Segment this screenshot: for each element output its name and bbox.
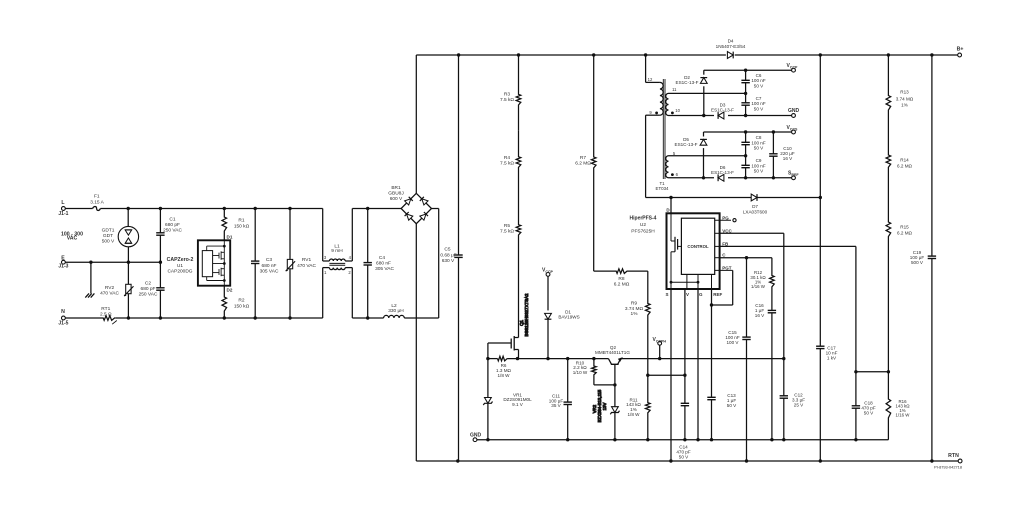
- svg-text:3.74 MΩ: 3.74 MΩ: [896, 96, 914, 101]
- svg-text:L2: L2: [391, 303, 397, 309]
- svg-text:50 V: 50 V: [864, 411, 874, 416]
- svg-text:ET034: ET034: [656, 186, 669, 191]
- terminal J1-3 (E input): [58, 255, 68, 269]
- svg-text:R9: R9: [631, 301, 637, 307]
- svg-text:N: N: [61, 309, 65, 315]
- wire N line: [65, 316, 322, 319]
- wire S down: [670, 289, 672, 461]
- diode D1: [542, 267, 580, 358]
- svg-text:C4: C4: [379, 255, 385, 261]
- svg-text:R15: R15: [900, 224, 909, 229]
- resistor R3: [500, 55, 521, 131]
- earth ground: [85, 262, 94, 297]
- capacitor C19: [910, 55, 936, 461]
- svg-text:10: 10: [675, 108, 680, 113]
- wire pin 5 rail: [669, 154, 748, 157]
- svg-text:1/8 W: 1/8 W: [628, 412, 641, 417]
- label Q1: [519, 293, 529, 337]
- svg-text:50 V: 50 V: [754, 106, 764, 111]
- resistor R14: [886, 130, 912, 195]
- terminal GND (bias): [788, 108, 800, 117]
- capacitor C5: [440, 55, 462, 461]
- zener VR2: [610, 385, 619, 442]
- wire FB: [720, 246, 891, 373]
- svg-text:S: S: [665, 292, 668, 297]
- svg-text:1/16 W: 1/16 W: [896, 413, 911, 418]
- wire VCC: [720, 233, 784, 358]
- svg-text:G: G: [699, 292, 703, 297]
- wire choke to L2 line: [352, 317, 383, 319]
- svg-text:9 mH: 9 mH: [331, 248, 343, 254]
- svg-text:470 VAC: 470 VAC: [100, 290, 119, 296]
- svg-text:F1: F1: [94, 194, 100, 200]
- svg-text:R14: R14: [900, 158, 909, 163]
- capacitor C17: [816, 198, 837, 462]
- svg-text:R3: R3: [504, 91, 510, 97]
- terminal GND (control ground): [470, 433, 482, 442]
- diode D6: [711, 165, 734, 181]
- svg-text:GBU8J: GBU8J: [388, 191, 404, 197]
- svg-text:R7: R7: [580, 155, 586, 161]
- svg-text:470 VAC: 470 VAC: [297, 263, 316, 269]
- svg-text:13V: 13V: [602, 403, 607, 411]
- svg-text:BAV19WS: BAV19WS: [558, 314, 579, 319]
- svg-text:CONTROL: CONTROL: [687, 244, 709, 249]
- svg-text:6.2 MΩ: 6.2 MΩ: [614, 282, 630, 288]
- wire C pin: [720, 256, 772, 259]
- svg-text:CAP200DG: CAP200DG: [167, 268, 192, 274]
- svg-text:E: E: [61, 255, 65, 261]
- svg-text:VAC: VAC: [67, 236, 78, 242]
- svg-text:MMBT4401LT1G: MMBT4401LT1G: [595, 350, 630, 355]
- zener VR1: [483, 359, 532, 442]
- svg-text:6.2 MΩ: 6.2 MΩ: [897, 164, 912, 169]
- svg-text:1/16 W: 1/16 W: [751, 284, 766, 289]
- svg-text:D4: D4: [728, 39, 734, 44]
- svg-text:PG: PG: [722, 215, 729, 220]
- svg-text:D7: D7: [752, 204, 758, 209]
- svg-text:7.5 kΩ: 7.5 kΩ: [500, 161, 514, 167]
- IC U1 CAPZero-2: [198, 235, 233, 293]
- V_CCPH rail (right part): [621, 357, 786, 360]
- terminal V_CCS: [787, 125, 799, 134]
- svg-text:C2: C2: [145, 280, 151, 286]
- label U1 CAPZero-2: [167, 257, 194, 274]
- capacitor C15: [725, 258, 750, 461]
- svg-text:ES1C-13-F: ES1C-13-F: [675, 142, 698, 147]
- svg-text:RV2: RV2: [105, 285, 115, 291]
- svg-text:PFS7625H: PFS7625H: [631, 228, 655, 234]
- resistor R4: [500, 131, 521, 196]
- capacitor C10: [769, 132, 795, 178]
- svg-text:ES1C-13-F: ES1C-13-F: [711, 108, 734, 113]
- svg-text:GND: GND: [470, 433, 482, 439]
- svg-text:0.68 μF: 0.68 μF: [440, 252, 456, 258]
- svg-text:2.5 Ω: 2.5 Ω: [100, 311, 112, 317]
- wire top bus to T1 pin 12: [646, 55, 660, 82]
- resistor R10: [573, 359, 617, 387]
- resistor R9: [625, 271, 650, 375]
- varistor RV1: [286, 207, 317, 320]
- terminal J1-1 (L input): [58, 200, 68, 217]
- resistor R12: [750, 258, 774, 300]
- capacitor C4: [364, 207, 395, 320]
- svg-text:FB: FB: [722, 241, 729, 246]
- terminal J1-5 (N input): [58, 309, 68, 326]
- svg-text:16 V: 16 V: [755, 313, 765, 318]
- resistor R16: [886, 372, 910, 440]
- svg-text:680 pF: 680 pF: [141, 286, 156, 292]
- terminal RTN: [948, 453, 962, 463]
- svg-text:50 V: 50 V: [754, 83, 764, 88]
- svg-text:150 kΩ: 150 kΩ: [234, 223, 250, 229]
- wire pin 11 rail: [669, 92, 748, 95]
- svg-text:35 V: 35 V: [551, 403, 561, 408]
- svg-text:7.5 kΩ: 7.5 kΩ: [500, 97, 514, 103]
- svg-text:BSS126H6327XTSA2: BSS126H6327XTSA2: [524, 293, 529, 337]
- wire V down / capacitor C14: [646, 289, 691, 459]
- wire G down: [697, 289, 699, 440]
- svg-text:BR1: BR1: [391, 185, 401, 191]
- svg-text:C3: C3: [266, 257, 272, 263]
- resistor R6: [496, 356, 511, 378]
- resistor R7: [575, 55, 596, 271]
- svg-text:250 VAC: 250 VAC: [139, 292, 158, 298]
- capacitor C11: [549, 359, 572, 442]
- svg-text:500 V: 500 V: [102, 239, 115, 245]
- capacitor C6: [741, 70, 765, 93]
- svg-text:GDT1: GDT1: [102, 227, 115, 233]
- resistor R2: [222, 286, 250, 318]
- svg-text:680 pF: 680 pF: [165, 222, 180, 228]
- svg-text:ES1C-13-F: ES1C-13-F: [676, 80, 699, 85]
- capacitor C12: [780, 359, 806, 440]
- svg-text:D1: D1: [227, 235, 233, 240]
- thermistor RT1: [100, 306, 117, 324]
- pin 10 / GND rail of bias: [669, 114, 792, 117]
- svg-text:305 VAC: 305 VAC: [260, 268, 279, 274]
- resistor R13: [886, 55, 914, 130]
- wire L line: [65, 208, 322, 210]
- svg-text:V: V: [686, 292, 689, 297]
- resistor R1: [222, 207, 250, 241]
- svg-text:150 kΩ: 150 kΩ: [234, 303, 250, 309]
- wire choke to bridge top: [352, 208, 401, 210]
- terminal S_REF: [788, 171, 799, 180]
- svg-text:6.2 MΩ: 6.2 MΩ: [575, 161, 591, 167]
- svg-text:D2: D2: [227, 288, 233, 293]
- transistor Q1 (depletion MOSFET): [488, 336, 519, 359]
- IC U2 HiperPFS-4: [667, 213, 733, 289]
- wire T1 pin 9 to drain node: [646, 115, 671, 197]
- wire bottom bus RTN: [416, 459, 958, 462]
- diode D4: [716, 39, 746, 59]
- svg-text:1N5407-E3/54: 1N5407-E3/54: [716, 44, 746, 49]
- svg-text:16 V: 16 V: [783, 156, 793, 161]
- svg-text:6.2 MΩ: 6.2 MΩ: [897, 230, 912, 235]
- svg-text:PGT: PGT: [722, 265, 732, 270]
- label VR2: [592, 389, 607, 422]
- svg-text:PI-8793-042718: PI-8793-042718: [934, 464, 962, 469]
- svg-text:J1-5: J1-5: [58, 321, 68, 327]
- svg-text:RT1: RT1: [101, 306, 110, 312]
- label 100-300 VAC: [61, 231, 83, 241]
- svg-text:50 V: 50 V: [754, 146, 764, 151]
- capacitor C16: [755, 300, 776, 440]
- V_CCP rail: [704, 69, 792, 72]
- svg-text:LXA03T600: LXA03T600: [743, 210, 768, 215]
- svg-text:100 V: 100 V: [726, 340, 739, 345]
- resistor R15: [886, 195, 912, 372]
- V_CCPH rail (left part): [486, 357, 608, 360]
- resistor R8: [594, 269, 648, 288]
- svg-text:630 V: 630 V: [442, 258, 455, 264]
- label PI-8793-042718: [934, 464, 962, 469]
- inductor L1 (common-mode choke): [323, 209, 353, 319]
- svg-text:C5: C5: [444, 247, 450, 253]
- svg-text:12: 12: [648, 77, 653, 82]
- transistor Q2: [595, 345, 630, 385]
- resistor R5: [500, 196, 521, 338]
- svg-text:U1: U1: [177, 263, 183, 269]
- svg-text:9.1 V: 9.1 V: [512, 402, 524, 407]
- svg-text:R13: R13: [900, 90, 909, 95]
- svg-text:680 nF: 680 nF: [262, 263, 277, 269]
- V_CCS rail: [704, 130, 792, 133]
- svg-text:50 V: 50 V: [754, 169, 764, 174]
- svg-text:305 VAC: 305 VAC: [375, 266, 394, 272]
- svg-text:50 V: 50 V: [679, 454, 689, 459]
- capacitor C8: [741, 132, 765, 156]
- diode D3: [711, 103, 734, 119]
- svg-text:GND: GND: [788, 108, 800, 114]
- capacitor C2: [139, 262, 165, 318]
- svg-text:R4: R4: [504, 155, 510, 161]
- gas discharge tube GDT1: [102, 209, 139, 263]
- svg-text:7.5 kΩ: 7.5 kΩ: [500, 229, 514, 235]
- wire L2 to bridge right: [404, 209, 438, 319]
- svg-text:B+: B+: [957, 47, 964, 53]
- pin 6 / S_REF rail: [669, 176, 792, 179]
- diode D2: [676, 70, 708, 115]
- bridge rectifier BR1: [388, 185, 431, 224]
- svg-text:R1: R1: [238, 218, 244, 224]
- terminal B+: [957, 47, 964, 57]
- svg-text:R5: R5: [504, 223, 510, 229]
- svg-text:1/8 W: 1/8 W: [498, 373, 511, 378]
- wire REF down / capacitor C13: [707, 289, 737, 440]
- svg-text:500 V: 500 V: [911, 260, 924, 265]
- label U2 HiperPFS-4: [630, 216, 657, 235]
- svg-text:J1-3: J1-3: [58, 263, 68, 269]
- svg-text:R8: R8: [618, 276, 624, 282]
- wire E line: [65, 261, 162, 264]
- svg-text:VCC: VCC: [722, 228, 732, 233]
- svg-text:REF: REF: [713, 292, 722, 297]
- GND rail: [477, 438, 889, 441]
- wire PGT to REF: [710, 270, 733, 306]
- terminal V_CCPH: [653, 337, 667, 359]
- svg-text:RTN: RTN: [948, 453, 959, 459]
- capacitor C7: [741, 93, 765, 115]
- svg-text:1/10 W: 1/10 W: [573, 370, 588, 375]
- inductor L2: [384, 303, 405, 318]
- svg-text:1%: 1%: [901, 103, 908, 108]
- svg-text:1 kV: 1 kV: [827, 355, 837, 360]
- capacitor C18: [852, 372, 876, 440]
- svg-text:11: 11: [672, 87, 677, 92]
- svg-text:RV1: RV1: [302, 257, 312, 263]
- terminal V_CCP (bias): [787, 63, 799, 72]
- varistor RV2: [100, 262, 133, 318]
- wire top bus B+: [416, 53, 957, 56]
- capacitor C9: [741, 156, 765, 178]
- svg-text:HiperPFS-4: HiperPFS-4: [630, 216, 657, 222]
- svg-text:U2: U2: [640, 222, 646, 228]
- drain node wire and diode D7: [669, 55, 822, 215]
- svg-text:330 μH: 330 μH: [388, 308, 404, 314]
- U2 pin labels: [665, 207, 732, 297]
- fuse F1: [90, 194, 104, 211]
- svg-text:3.15 A: 3.15 A: [90, 199, 104, 205]
- svg-text:1%: 1%: [631, 311, 639, 317]
- svg-text:250 VAC: 250 VAC: [163, 228, 182, 234]
- wire bridge output risers: [415, 55, 417, 461]
- svg-text:CAPZero-2: CAPZero-2: [167, 257, 194, 263]
- svg-text:25 V: 25 V: [794, 403, 804, 408]
- svg-text:ES1C-13-F: ES1C-13-F: [711, 170, 734, 175]
- resistor R11: [626, 375, 650, 441]
- svg-text:3.74 MΩ: 3.74 MΩ: [625, 306, 644, 312]
- transformer T1: [648, 77, 681, 191]
- pin PG open circle: [733, 219, 736, 222]
- svg-text:680 nF: 680 nF: [376, 261, 391, 267]
- capacitor C3: [251, 207, 279, 320]
- svg-text:600 V: 600 V: [390, 196, 403, 202]
- svg-text:J1-1: J1-1: [58, 211, 68, 217]
- diode D5: [675, 132, 707, 178]
- capacitor C1: [156, 207, 182, 262]
- svg-text:GDT: GDT: [103, 233, 113, 239]
- svg-text:C1: C1: [169, 217, 175, 223]
- svg-text:50 V: 50 V: [727, 403, 737, 408]
- svg-text:R2: R2: [238, 298, 244, 304]
